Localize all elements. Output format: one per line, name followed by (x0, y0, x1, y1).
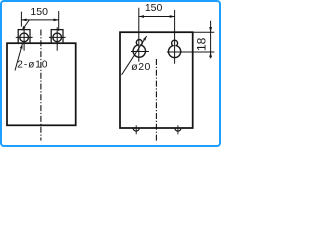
dimension 150 right view dimension line (139, 16, 175, 18)
left foot center tick (135, 125, 137, 134)
right foot center tick (177, 125, 179, 134)
hole circle right (Φ10) (53, 33, 62, 42)
svg-text:ø20: ø20 (131, 61, 151, 73)
leader from dimension line to left lug (22, 20, 29, 30)
svg-text:150: 150 (145, 2, 163, 14)
left foot semicircle (133, 128, 139, 131)
center marks right hole (49, 27, 66, 51)
dimension 150 left view arrowheads (21, 19, 26, 22)
svg-text:2-ø10: 2-ø10 (17, 59, 48, 70)
center marks right keyhole + extension to 18 dim (167, 10, 214, 64)
dimension 18 dimension line (210, 21, 212, 59)
dimension 150 left view extension lines (21, 11, 58, 31)
blue frame border (1, 1, 220, 146)
right view keyhole right (169, 40, 181, 57)
dimension 18 top extension line (193, 31, 214, 33)
right view vertical centerline (155, 59, 157, 141)
svg-text:18: 18 (195, 37, 209, 51)
dimension 18 arrowheads (209, 27, 212, 32)
leader for Φ20 (122, 36, 147, 75)
hole circle left (Φ10) (20, 33, 29, 42)
dimension 150 right view arrowheads (139, 15, 144, 18)
left view body (7, 43, 76, 125)
left view tab (right lug) (51, 30, 63, 44)
center marks left keyhole (131, 8, 149, 62)
left view vertical centerline (40, 30, 42, 141)
right view body (120, 32, 193, 128)
right foot semicircle (175, 128, 181, 131)
leader from label 2-Φ10 to left lug (15, 44, 22, 71)
right view keyhole left (Φ20 with lobe) (133, 40, 145, 58)
center marks left hole (16, 27, 33, 51)
left view tab (left lug) (18, 30, 30, 44)
dimension 150 left view dimension line (21, 19, 58, 21)
svg-text:150: 150 (30, 6, 48, 18)
